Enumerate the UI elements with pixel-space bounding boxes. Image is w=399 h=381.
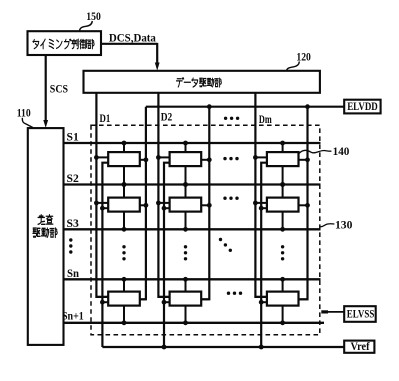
timing controller U150 box xyxy=(28,31,102,55)
svg-text:ELVDD: ELVDD xyxy=(347,99,378,113)
leader squiggle for 130 xyxy=(320,224,335,227)
ellipsis: column 1 vertical xyxy=(122,245,125,260)
scan driver U110 box xyxy=(28,128,64,345)
pixel P1m (row 1, column m) xyxy=(253,141,310,187)
ELVSS terminal box xyxy=(344,306,376,322)
ellipsis: pixel row n continuation xyxy=(227,292,242,295)
pixel P2m (row 2, column m) xyxy=(253,182,310,232)
junction: column 2 power line on ELVDD rail xyxy=(207,104,212,109)
data line D1 xyxy=(96,93,108,297)
pixel P21 (row 2, column 1) xyxy=(94,182,148,232)
Vref sense line column 1 xyxy=(102,163,108,347)
ELVSS wire into panel xyxy=(323,311,345,313)
junction: column m power line on ELVDD rail xyxy=(305,104,310,109)
svg-text:DCS,Data: DCS,Data xyxy=(109,31,156,45)
ellipsis: column m vertical xyxy=(281,245,284,260)
pixel P12 (row 1, column 2) xyxy=(156,141,212,187)
svg-text:S3: S3 xyxy=(67,218,80,230)
svg-text:Sn: Sn xyxy=(67,268,80,280)
wire DCS,Data: timing controller to data driver xyxy=(101,43,157,45)
data line D2 xyxy=(158,93,169,297)
pixel Pnm (row n, column m) xyxy=(255,277,307,325)
ELVDD terminal box xyxy=(344,100,380,114)
svg-text:Dm: Dm xyxy=(259,114,272,126)
ellipsis: pixel row 2 continuation xyxy=(223,197,238,200)
scan driver label (走査駆動部) xyxy=(33,215,57,238)
scan line S2 xyxy=(64,183,321,185)
ELVDD power line column 1 xyxy=(140,107,146,300)
ellipsis: pixel row 1 continuation xyxy=(223,157,238,160)
scan line Sn+1 xyxy=(64,322,325,324)
ELVDD power line column 2 xyxy=(201,107,209,300)
svg-text:120: 120 xyxy=(296,49,311,63)
scan line S1 xyxy=(64,142,321,144)
ellipsis: data lines D2..Dm xyxy=(224,117,239,120)
svg-text:Sn+1: Sn+1 xyxy=(62,310,84,322)
junction: column m Vref line on rail xyxy=(259,345,264,350)
junction: column 2 Vref line on rail xyxy=(162,345,167,350)
pixel Pn1 (row n, column 1) xyxy=(96,277,145,325)
arrowhead into scan driver xyxy=(43,120,48,128)
svg-text:D2: D2 xyxy=(161,112,173,124)
leader line for 120 xyxy=(287,62,300,71)
ELVDD power line column 3 xyxy=(299,107,308,300)
timing controller label (タイミング制御部) xyxy=(33,39,94,49)
svg-text:150: 150 xyxy=(86,9,101,23)
wire SCS: timing controller to scan driver xyxy=(45,55,47,122)
pixel Pn2 (row n, column 2) xyxy=(158,277,209,325)
svg-text:ELVSS: ELVSS xyxy=(347,308,375,320)
ellipsis: scan label column vertical xyxy=(69,238,72,253)
svg-text:SCS: SCS xyxy=(50,82,68,96)
ELVDD supply rail (horizontal) xyxy=(146,106,344,108)
pixel array outline 130 (dashed) xyxy=(91,125,320,335)
pixel P11 (row 1, column 1) xyxy=(94,141,148,187)
data driver label (データ駆動部) xyxy=(176,78,221,87)
svg-text:140: 140 xyxy=(333,144,350,158)
scan line Sn xyxy=(64,278,321,280)
Vref sense line column 2 xyxy=(164,163,170,347)
Vref sense line column 3 xyxy=(261,163,267,347)
pixel P22 (row 2, column 2) xyxy=(156,182,212,232)
scan line S3 xyxy=(64,228,321,230)
leader squiggle for 140 xyxy=(299,150,332,153)
leader line for 110 xyxy=(22,118,33,128)
svg-text:S2: S2 xyxy=(67,173,80,185)
data driver U120 box xyxy=(84,71,320,93)
leader line for 150 xyxy=(80,21,93,31)
svg-text:D1: D1 xyxy=(100,113,111,125)
arrowhead into data driver xyxy=(155,63,160,71)
svg-text:Vref: Vref xyxy=(351,341,370,353)
svg-text:110: 110 xyxy=(17,105,31,119)
Vref terminal box xyxy=(344,341,374,353)
data line Dm xyxy=(255,93,267,297)
svg-text:130: 130 xyxy=(335,218,352,232)
svg-text:S1: S1 xyxy=(67,132,80,144)
Vref rail (horizontal) xyxy=(102,346,344,348)
ellipsis: column 2 vertical xyxy=(184,245,187,260)
ellipsis: diagonal array continuation xyxy=(219,238,232,252)
